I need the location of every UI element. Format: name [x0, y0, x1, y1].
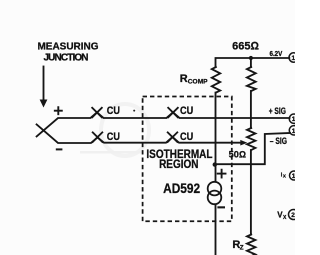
- svg-text:1: 1: [292, 173, 295, 180]
- svg-text:1: 1: [292, 128, 295, 135]
- svg-text:Z: Z: [240, 245, 244, 252]
- svg-text:X: X: [283, 173, 286, 178]
- svg-text:JUNCTION: JUNCTION: [44, 53, 89, 64]
- svg-text:CU: CU: [107, 131, 120, 143]
- svg-text:CU: CU: [107, 105, 120, 117]
- svg-text:2: 2: [291, 212, 295, 219]
- svg-text:665Ω: 665Ω: [232, 40, 259, 52]
- svg-text:X: X: [283, 215, 287, 221]
- svg-text:– SIG: – SIG: [270, 136, 287, 146]
- svg-text:+ SIG: + SIG: [269, 106, 286, 116]
- svg-text:6.2V: 6.2V: [270, 51, 283, 58]
- svg-text:CU: CU: [180, 105, 193, 117]
- svg-text:CU: CU: [180, 131, 193, 143]
- svg-text:R: R: [180, 73, 188, 85]
- svg-text:AD592: AD592: [163, 181, 200, 196]
- svg-text:1: 1: [292, 55, 296, 62]
- svg-text:REGION: REGION: [159, 157, 198, 171]
- svg-text:50Ω: 50Ω: [229, 150, 246, 160]
- svg-text:COMP: COMP: [188, 78, 208, 85]
- svg-text:1: 1: [292, 116, 295, 123]
- svg-text:MEASURING: MEASURING: [37, 42, 98, 53]
